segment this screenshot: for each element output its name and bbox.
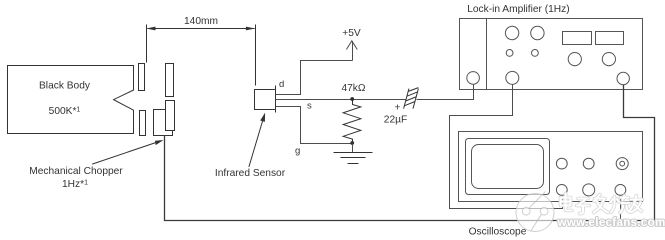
chopper leader arrowhead bbox=[155, 140, 164, 145]
oscilloscope knob top 2 bbox=[583, 158, 594, 169]
ground bar 2 bbox=[341, 157, 366, 159]
infrared sensor flange bbox=[275, 86, 277, 113]
lock-in output connector 2 bbox=[506, 71, 519, 84]
junction dot s-wire/resistor bbox=[350, 97, 354, 101]
svg-text:140mm: 140mm bbox=[184, 16, 218, 27]
wire lock-in reference to chopper bbox=[165, 85, 655, 221]
oscilloscope screen bezel bbox=[466, 139, 550, 195]
svg-text:Oscilloscope: Oscilloscope bbox=[469, 227, 527, 238]
+5V arrowhead bbox=[346, 41, 357, 50]
svg-text:22µF: 22µF bbox=[384, 115, 407, 126]
wire lock-in output to oscilloscope input bbox=[450, 85, 563, 209]
oscilloscope knob top 1 bbox=[556, 158, 567, 169]
watermark chinese text bbox=[561, 194, 643, 214]
svg-text:Black Body: Black Body bbox=[39, 81, 91, 92]
wire s pin to capacitor bbox=[276, 99, 406, 101]
mechanical chopper blade 1 lower bbox=[140, 111, 146, 136]
lock-in amplifier box bbox=[460, 19, 643, 90]
lock-in knob 2 bbox=[531, 26, 544, 39]
oscilloscope knob bottom 2 bbox=[583, 184, 595, 196]
svg-text:Mechanical Chopper: Mechanical Chopper bbox=[29, 166, 123, 177]
sensor leader arrowhead bbox=[260, 113, 265, 122]
svg-text:Lock-in Amplifier (1Hz): Lock-in Amplifier (1Hz) bbox=[467, 4, 569, 15]
capacitor plate right bbox=[413, 89, 418, 109]
lock-in display window 1 bbox=[563, 32, 592, 45]
infrared sensor body U1 bbox=[255, 90, 276, 110]
chopper leader line bbox=[92, 143, 156, 165]
oscilloscope box bbox=[459, 132, 643, 202]
svg-text:500K*1: 500K*1 bbox=[49, 106, 81, 117]
svg-text:47kΩ: 47kΩ bbox=[341, 83, 365, 94]
sensor leader line bbox=[249, 120, 263, 167]
lock-in input connector 1 bbox=[467, 72, 480, 85]
svg-text:g: g bbox=[295, 146, 300, 157]
oscilloscope knob top 3 inner bbox=[620, 161, 625, 166]
dimension line 140mm bbox=[148, 28, 255, 30]
oscilloscope screen bbox=[472, 145, 544, 189]
lock-in knob 4 bbox=[602, 53, 615, 66]
wire g pin to resistor bottom bbox=[276, 107, 353, 144]
capacitor C 22uF plate left bbox=[404, 89, 409, 109]
svg-text:Infrared Sensor: Infrared Sensor bbox=[215, 168, 286, 179]
junction dot g-wire/resistor bbox=[350, 141, 354, 145]
lock-in small knob 2 bbox=[532, 50, 539, 57]
mechanical chopper blade 2 lower bbox=[166, 101, 175, 131]
dimension extension line right bbox=[255, 25, 257, 86]
oscilloscope knob bottom 3 bbox=[615, 185, 626, 196]
mechanical chopper motor box bbox=[154, 110, 173, 136]
ground bar 1 bbox=[334, 152, 373, 154]
lock-in display window 2 bbox=[596, 32, 624, 45]
ground stem bbox=[352, 144, 354, 153]
ground bar 3 bbox=[348, 163, 359, 165]
black body source bbox=[8, 66, 134, 134]
lock-in knob 1 bbox=[505, 26, 518, 39]
lock-in panel divider bbox=[486, 19, 488, 90]
wire oscilloscope trigger tap bbox=[620, 196, 622, 221]
+5V supply arrow stem bbox=[352, 41, 354, 61]
oscilloscope knob bottom 1 bbox=[556, 185, 567, 196]
svg-text:+: + bbox=[395, 103, 401, 114]
wire capacitor to lock-in input bbox=[417, 85, 474, 100]
resistor 47k zigzag bbox=[343, 100, 361, 144]
watermark logo circle bbox=[516, 192, 554, 232]
dimension arrowhead left bbox=[146, 27, 155, 31]
dimension arrowhead right bbox=[246, 27, 255, 31]
svg-text:d: d bbox=[279, 79, 284, 90]
lock-in small knob 1 bbox=[506, 50, 513, 57]
mechanical chopper blade 1 upper bbox=[139, 64, 145, 91]
dimension extension line left bbox=[146, 25, 148, 63]
oscilloscope knob top 3 outer bbox=[616, 158, 628, 170]
svg-text:+5V: +5V bbox=[342, 28, 361, 39]
capacitor hatch lines bbox=[404, 88, 418, 106]
mechanical chopper blade 2 upper bbox=[166, 64, 174, 97]
lock-in reference connector 3 bbox=[617, 72, 629, 84]
wire d pin to +5V bbox=[276, 61, 353, 95]
svg-text:www.elecfans.com: www.elecfans.com bbox=[557, 216, 665, 229]
svg-text:s: s bbox=[307, 101, 312, 112]
lock-in knob 3 bbox=[568, 53, 581, 66]
